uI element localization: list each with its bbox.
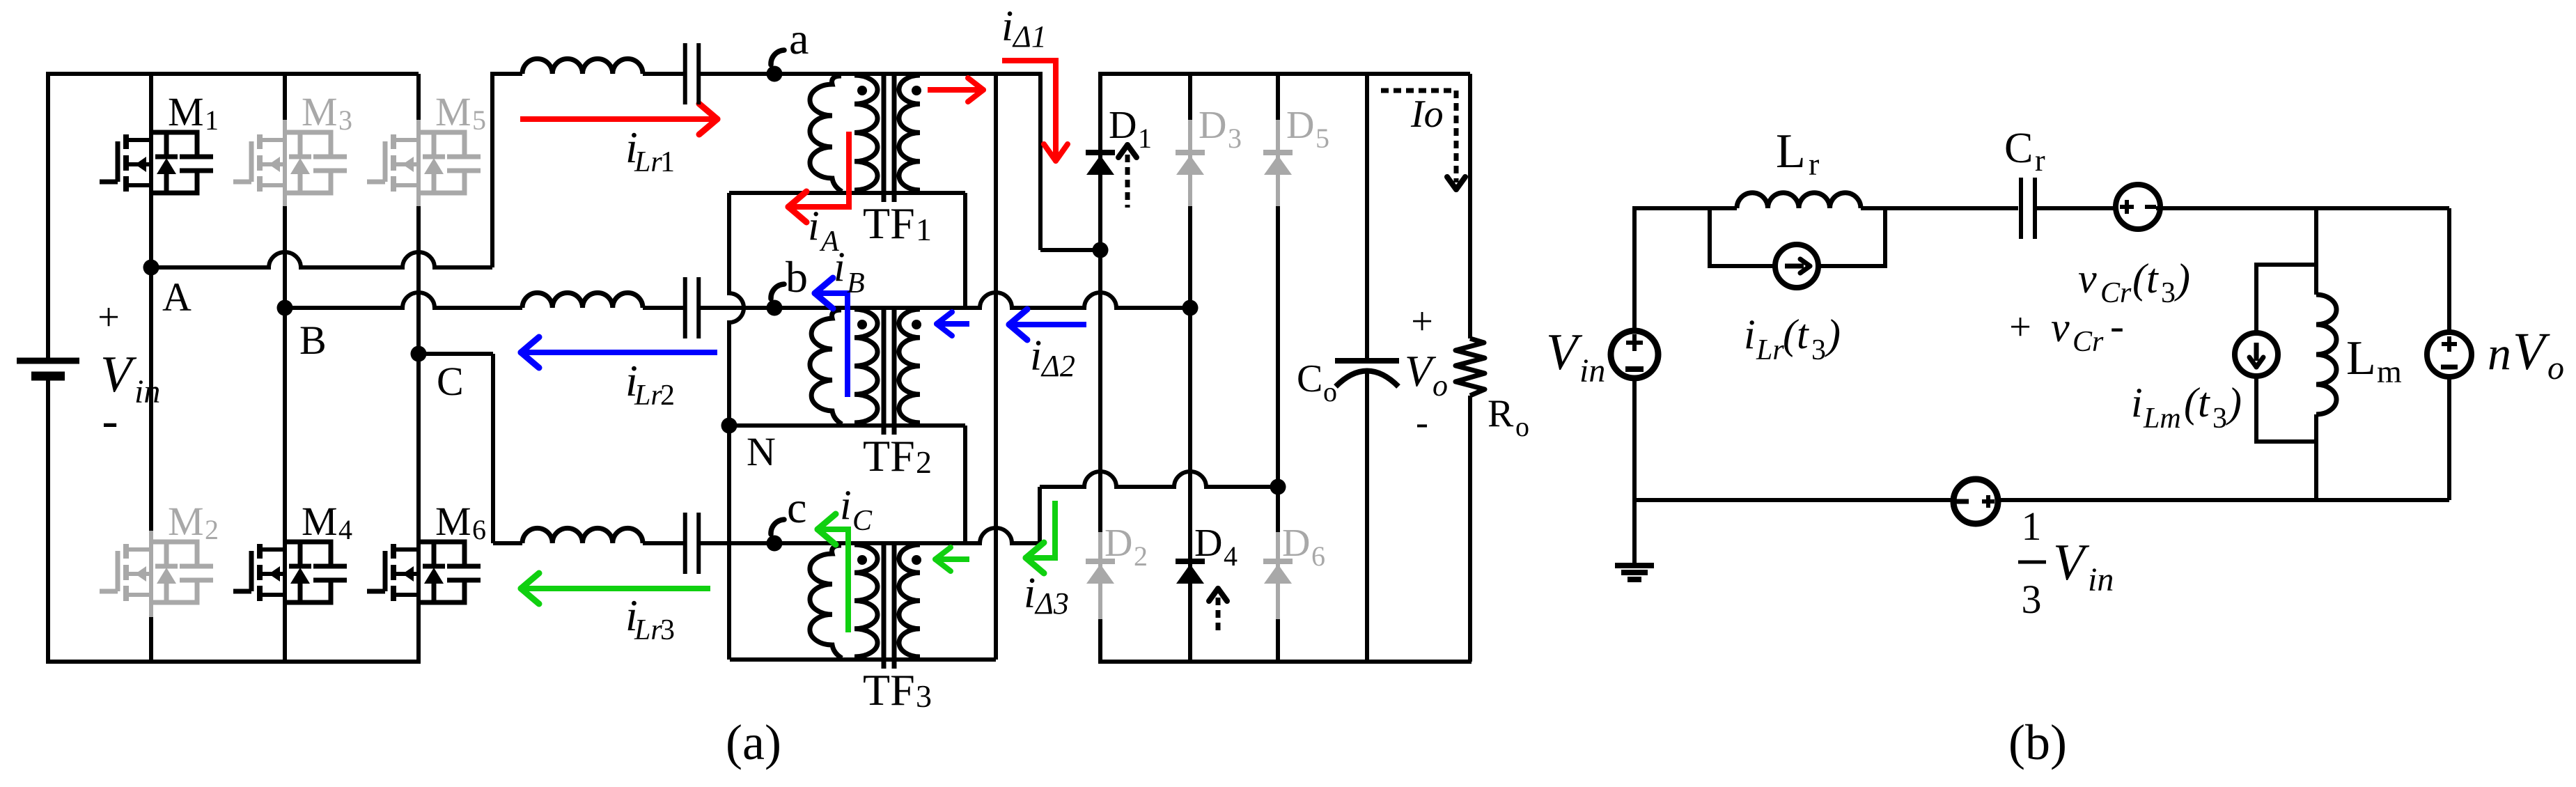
- wire Ro branch lower: [1468, 396, 1472, 662]
- node a: [767, 66, 783, 82]
- node TF2-D3 junction: [1182, 300, 1199, 316]
- node A: [143, 260, 159, 276]
- wire phase A riser: [490, 74, 494, 267]
- svg-text:L: L: [1776, 125, 1806, 178]
- wire TF1 secondary to D1 node: [1038, 72, 1043, 250]
- wire Cr1 to node a: [698, 72, 773, 76]
- transformer TF2 secondary winding: [899, 309, 920, 423]
- transformer TF1 core: [882, 72, 887, 202]
- wire TF3 jog up: [1038, 487, 1042, 545]
- svg-text:a: a: [789, 14, 809, 63]
- svg-text:Io: Io: [1410, 93, 1444, 136]
- wire leg D1/D2: [1098, 74, 1102, 532]
- wire (b) top-right: [2316, 206, 2449, 210]
- wire phase C row: [419, 352, 493, 356]
- label iD2 arrow: [1009, 322, 1086, 327]
- svg-text:): ): [2174, 256, 2190, 302]
- label D1 current dashed arrow: [1125, 155, 1130, 208]
- node B: [277, 300, 293, 316]
- svg-text:D: D: [1282, 522, 1310, 565]
- wire Lm branch lower: [2314, 414, 2318, 500]
- svg-text:Lr: Lr: [634, 380, 662, 412]
- node TF3-D6 junction: [1270, 479, 1286, 495]
- transformer TF3 polarity dots: [857, 555, 867, 565]
- transformer TF2 core: [882, 306, 887, 435]
- wire secondary riser: [994, 74, 998, 660]
- wire Cr to vCr source: [2035, 206, 2116, 210]
- capacitor Cr (b): [2019, 178, 2023, 239]
- transistor M3: [285, 132, 331, 157]
- inductor Lr1: [522, 59, 643, 74]
- svg-text:3: 3: [916, 678, 932, 714]
- svg-text:V: V: [1546, 324, 1583, 381]
- svg-text:(t: (t: [2184, 380, 2210, 426]
- node N: [721, 418, 737, 434]
- svg-text:i: i: [1744, 311, 1756, 357]
- svg-text:M: M: [302, 499, 338, 544]
- svg-text:C: C: [852, 505, 873, 537]
- diode D5: [1263, 150, 1293, 155]
- wire phase A row: [151, 252, 492, 267]
- capacitor Cr1: [683, 43, 687, 104]
- svg-text:in: in: [134, 373, 160, 410]
- svg-text:v: v: [2051, 304, 2070, 350]
- wire leg B gray segment: [283, 120, 287, 206]
- svg-text:6: 6: [472, 514, 486, 545]
- wire vCr to Lm node: [2158, 207, 2162, 208]
- label D4 current dashed arrow: [1216, 598, 1221, 634]
- wire rectifier bottom rail: [1098, 660, 1472, 664]
- resistor Ro: [1455, 338, 1485, 396]
- svg-text:i: i: [808, 203, 820, 249]
- wire iLr source branch: [1710, 208, 1885, 266]
- transformer TF1 polarity dots: [857, 86, 867, 95]
- transformer TF1 secondary winding: [899, 75, 920, 190]
- svg-text:V: V: [2513, 322, 2550, 381]
- label TF2 secondary arrow: [937, 321, 969, 327]
- svg-text:R: R: [1488, 392, 1514, 435]
- wire TF1-TF2 secondary link: [963, 193, 967, 308]
- svg-text:o: o: [2547, 350, 2564, 387]
- svg-text:Δ3: Δ3: [1034, 586, 1069, 621]
- transformer TF3 primary winding: [854, 545, 877, 657]
- svg-text:M: M: [302, 89, 338, 134]
- wire input left rail lower: [46, 376, 50, 664]
- svg-text:3: 3: [1811, 334, 1826, 366]
- svg-text:-: -: [2110, 303, 2124, 349]
- wire TF3 bottom line: [730, 657, 996, 662]
- wire leg D1/D2 gray segment: [1098, 532, 1102, 619]
- wire leg C gray segment: [416, 120, 421, 206]
- label Io dashed arrow: [1381, 88, 1456, 93]
- wire Lr1 to Cr1: [643, 72, 685, 76]
- svg-text:+: +: [97, 296, 120, 339]
- svg-text:): ): [2226, 380, 2242, 426]
- node b: [767, 300, 783, 316]
- node TF1-D1 junction: [1093, 242, 1109, 258]
- transformer TF1 primary winding: [854, 75, 877, 190]
- svg-text:C: C: [437, 359, 464, 404]
- diode D4: [1176, 559, 1205, 564]
- wire (b) top-left: [1632, 208, 1637, 332]
- wire leg D3/D4 gray segment: [1188, 120, 1192, 206]
- svg-text:m: m: [2377, 354, 2402, 389]
- wire rectifier top rail: [1098, 72, 1470, 76]
- wire TF2-TF3 secondary link: [963, 426, 967, 543]
- wire (b) bottom rail left: [1634, 498, 1953, 502]
- svg-text:D: D: [1286, 104, 1314, 147]
- wire Ro branch upper: [1468, 74, 1472, 338]
- voltage source Vin (b): [1611, 331, 1658, 378]
- svg-text:Δ1: Δ1: [1012, 20, 1047, 54]
- svg-text:N: N: [747, 429, 776, 474]
- svg-text:+: +: [1411, 300, 1433, 343]
- battery Vin positive plate: [17, 358, 79, 364]
- wire TF3 top line: [774, 528, 1040, 543]
- svg-text:c: c: [787, 483, 806, 532]
- wire Lm branch upper: [2314, 206, 2318, 295]
- inductor Lm: [2316, 295, 2336, 414]
- inductor Lr2: [522, 293, 643, 308]
- svg-text:1: 1: [2022, 504, 2042, 549]
- wire leg A gray segment: [149, 531, 153, 617]
- svg-text:M: M: [168, 499, 204, 544]
- svg-text:i: i: [840, 482, 852, 528]
- wire Cr3 to node c: [698, 541, 774, 545]
- svg-text:3: 3: [338, 104, 352, 136]
- svg-text:M: M: [435, 89, 471, 134]
- wire Co branch upper: [1365, 74, 1369, 361]
- svg-text:i: i: [1030, 332, 1042, 380]
- inductor Lr3: [522, 528, 643, 543]
- svg-text:(t: (t: [1783, 311, 1809, 357]
- svg-text:+: +: [2009, 306, 2031, 349]
- svg-text:(a): (a): [726, 715, 781, 770]
- svg-text:3: 3: [2022, 577, 2042, 622]
- svg-text:1: 1: [1138, 123, 1152, 154]
- voltage source 1/3 Vin: [1953, 479, 1998, 524]
- svg-text:2: 2: [660, 380, 675, 412]
- transistor M4: [285, 542, 331, 566]
- svg-text:B: B: [299, 318, 327, 363]
- wire leg D5/D6: [1276, 74, 1280, 120]
- svg-text:r: r: [1809, 146, 1819, 182]
- svg-text:2: 2: [205, 514, 219, 545]
- transformer TF2 primary winding: [854, 309, 877, 423]
- diode D6: [1263, 559, 1293, 564]
- transformer TF3 core: [882, 542, 887, 669]
- svg-text:b: b: [786, 252, 808, 302]
- svg-text:3: 3: [2161, 277, 2176, 309]
- svg-text:D: D: [1199, 104, 1226, 147]
- svg-text:3: 3: [2212, 403, 2227, 435]
- diode D2: [1086, 559, 1115, 564]
- svg-text:-: -: [1416, 401, 1428, 443]
- svg-text:TF: TF: [863, 665, 915, 715]
- svg-text:(t: (t: [2132, 256, 2159, 302]
- svg-text:C: C: [1297, 357, 1322, 400]
- svg-text:TF: TF: [863, 431, 915, 481]
- voltage source nVo: [2427, 332, 2472, 377]
- svg-text:in: in: [1579, 352, 1605, 389]
- svg-text:1: 1: [205, 104, 219, 136]
- svg-text:i: i: [1024, 570, 1036, 617]
- svg-text:A: A: [162, 274, 192, 320]
- wire (b) Vin to ground: [1632, 377, 1637, 500]
- svg-text:5: 5: [472, 104, 486, 136]
- transformer TF2 polarity dots: [857, 320, 867, 329]
- wire leg A (M1/M2 branch): [149, 74, 153, 531]
- svg-text:M: M: [435, 499, 471, 544]
- svg-text:6: 6: [1311, 540, 1325, 572]
- svg-text:1: 1: [660, 146, 675, 178]
- ground (b): [1632, 498, 1637, 566]
- wire bottom rail: [46, 660, 421, 664]
- svg-text:TF: TF: [863, 198, 915, 248]
- svg-text:o: o: [1323, 376, 1337, 407]
- svg-text:Lr: Lr: [1756, 334, 1784, 366]
- svg-text:5: 5: [1316, 123, 1329, 154]
- svg-text:3: 3: [660, 614, 675, 646]
- transistor M2: [151, 542, 197, 566]
- svg-text:o: o: [1515, 411, 1529, 442]
- wire Cr2 to node b: [698, 306, 774, 310]
- svg-text:n: n: [2488, 327, 2511, 380]
- current source iLm(t3): [2235, 333, 2278, 376]
- svg-text:D: D: [1194, 522, 1222, 565]
- svg-text:in: in: [2088, 561, 2114, 598]
- wire Lr to Cr: [1861, 206, 2018, 210]
- svg-text:V: V: [2053, 534, 2090, 591]
- transistor M1: [151, 132, 197, 157]
- wire Lr2 to Cr2: [643, 306, 685, 310]
- capacitor Cr2: [683, 277, 687, 338]
- label iLr2 arrow: [522, 350, 717, 355]
- battery Vin negative plate: [31, 372, 65, 381]
- svg-text:C: C: [2004, 125, 2033, 172]
- wire N leg vertical: [729, 193, 744, 660]
- svg-text:M: M: [168, 89, 204, 134]
- label TF3 secondary arrow: [935, 556, 969, 562]
- diode D1: [1086, 150, 1115, 155]
- svg-text:3: 3: [1228, 123, 1242, 154]
- svg-text:Lm: Lm: [2143, 403, 2181, 435]
- svg-text:4: 4: [1224, 540, 1238, 572]
- label iA arrow: [788, 132, 849, 207]
- wire nVo branch: [2447, 208, 2451, 332]
- wire iLm branch: [2256, 265, 2316, 333]
- wire leg C (M5/M6 branch): [416, 74, 421, 120]
- wire TF2 bottom line: [729, 423, 965, 428]
- wire Lr3 to Cr3: [643, 541, 685, 545]
- wire TF1 bottom line: [729, 191, 965, 195]
- wire leg B (M3/M4 branch): [283, 74, 287, 120]
- capacitor Co: [1335, 358, 1399, 364]
- label iC arrow: [818, 529, 848, 632]
- svg-text:Lr: Lr: [634, 614, 662, 646]
- label iB arrow: [815, 293, 848, 397]
- node c: [767, 536, 783, 552]
- svg-text:i: i: [1001, 3, 1013, 50]
- svg-text:D: D: [1109, 104, 1137, 147]
- svg-text:Lr: Lr: [634, 146, 662, 178]
- svg-text:-: -: [102, 394, 118, 448]
- wire Co branch lower: [1365, 373, 1369, 662]
- svg-text:4: 4: [338, 514, 352, 545]
- svg-text:): ): [1825, 311, 1841, 357]
- svg-text:(b): (b): [2008, 715, 2067, 770]
- svg-text:Δ2: Δ2: [1040, 349, 1075, 383]
- svg-text:r: r: [2035, 143, 2045, 178]
- wire (b) bottom rail right: [1998, 498, 2449, 502]
- label iLr3 arrow: [522, 586, 710, 591]
- wire top rail: [46, 72, 419, 76]
- label iD1 arrow: [1002, 61, 1056, 159]
- wire leg D5/D6 gray segments: [1276, 120, 1280, 206]
- current source iLr(t3): [1775, 244, 1818, 288]
- wire TF3 to D6 node: [1040, 472, 1278, 487]
- wire leg D3/D4: [1188, 74, 1192, 120]
- svg-text:v: v: [2078, 256, 2097, 302]
- svg-text:B: B: [847, 267, 865, 299]
- wire phase B row: [285, 293, 522, 308]
- svg-text:i: i: [2131, 380, 2143, 426]
- label iLr1 arrow: [520, 116, 717, 122]
- wire TF2 top line: [773, 293, 1190, 308]
- svg-text:i: i: [834, 244, 845, 290]
- node C: [411, 346, 427, 362]
- svg-text:D: D: [1104, 522, 1132, 565]
- svg-text:2: 2: [1134, 540, 1148, 572]
- svg-text:2: 2: [916, 444, 932, 480]
- label TF1 secondary arrow: [928, 87, 983, 93]
- label iD3 arrow: [1026, 501, 1055, 558]
- inductor Lr (b): [1737, 193, 1861, 208]
- transformer TF3 secondary winding: [899, 545, 920, 657]
- diode D3: [1176, 150, 1205, 155]
- transistor M5: [419, 132, 465, 157]
- capacitor Cr3: [683, 513, 687, 574]
- wire TF1 top line: [773, 72, 1040, 76]
- svg-text:Cr: Cr: [2072, 326, 2104, 358]
- svg-text:1: 1: [916, 212, 932, 247]
- svg-text:L: L: [2346, 332, 2376, 385]
- voltage source vCr(t3): [2116, 185, 2160, 229]
- wire input left rail upper: [46, 72, 50, 361]
- svg-text:o: o: [1433, 368, 1448, 403]
- transistor M6: [419, 542, 465, 566]
